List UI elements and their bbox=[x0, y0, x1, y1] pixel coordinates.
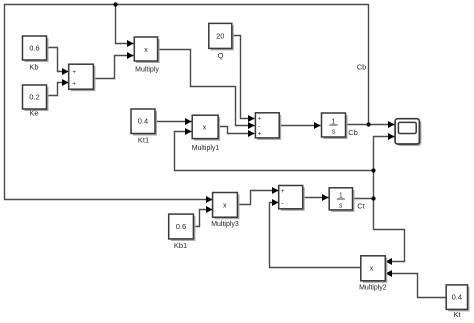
svg-text:0.4: 0.4 bbox=[138, 117, 148, 126]
svg-text:x: x bbox=[370, 265, 374, 272]
svg-text:Cb: Cb bbox=[357, 63, 367, 72]
svg-text:Multiply: Multiply bbox=[135, 66, 159, 73]
svg-text:+: + bbox=[258, 116, 262, 123]
svg-text:s: s bbox=[339, 203, 343, 210]
svg-text:-: - bbox=[258, 123, 260, 130]
svg-text:Kt: Kt bbox=[453, 310, 461, 319]
svg-text:20: 20 bbox=[216, 32, 224, 41]
svg-text:0.6: 0.6 bbox=[176, 222, 186, 231]
svg-text:Multiply2: Multiply2 bbox=[359, 285, 387, 292]
svg-text:Ct: Ct bbox=[357, 202, 365, 211]
svg-text:+: + bbox=[258, 131, 262, 138]
svg-text:+: + bbox=[281, 188, 285, 195]
svg-text:1: 1 bbox=[332, 119, 336, 126]
svg-text:s: s bbox=[332, 129, 336, 136]
svg-text:Kb: Kb bbox=[29, 63, 38, 72]
svg-text:x: x bbox=[144, 47, 148, 54]
svg-text:Kb1: Kb1 bbox=[174, 241, 187, 250]
svg-text:Q: Q bbox=[218, 51, 224, 60]
svg-text:1: 1 bbox=[339, 193, 343, 200]
svg-text:+: + bbox=[72, 69, 76, 76]
svg-text:Multiply3: Multiply3 bbox=[211, 221, 239, 228]
svg-text:0.4: 0.4 bbox=[452, 293, 462, 302]
svg-text:Kt1: Kt1 bbox=[138, 136, 149, 145]
svg-text:0.6: 0.6 bbox=[29, 44, 39, 53]
svg-text:Cb: Cb bbox=[348, 128, 358, 137]
svg-text:0.2: 0.2 bbox=[29, 93, 39, 102]
svg-text:Ke: Ke bbox=[29, 109, 38, 118]
svg-text:-: - bbox=[282, 200, 284, 207]
svg-text:+: + bbox=[72, 81, 76, 88]
svg-text:x: x bbox=[203, 125, 207, 132]
svg-text:Multiply1: Multiply1 bbox=[192, 145, 220, 152]
svg-text:x: x bbox=[223, 202, 227, 209]
